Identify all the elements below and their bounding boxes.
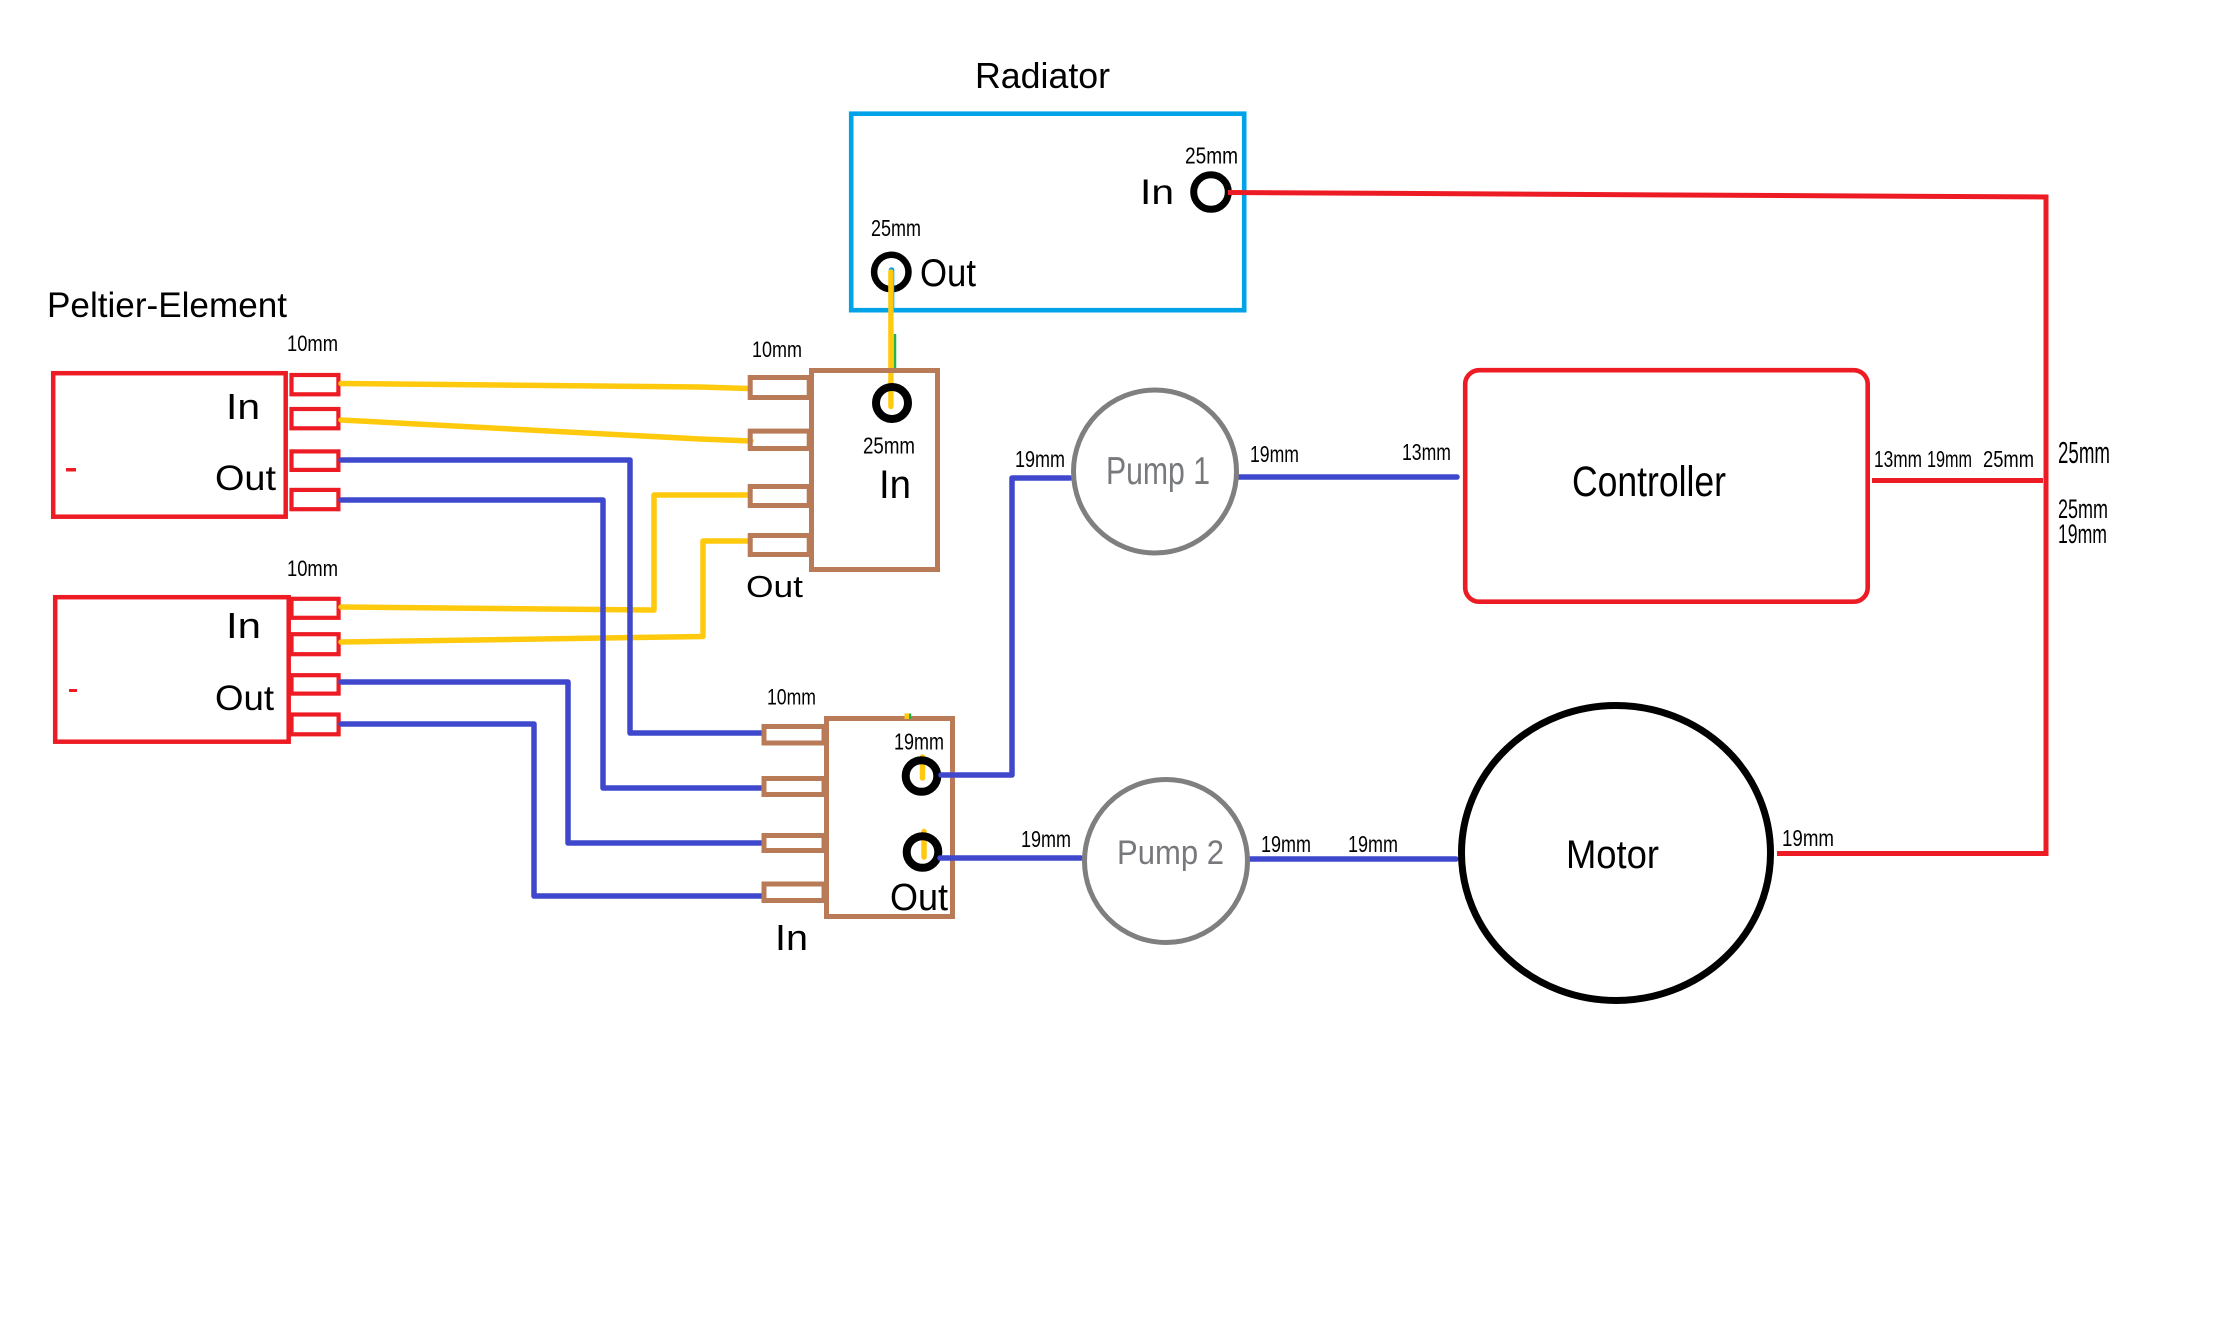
svg-text:Out: Out [215, 459, 276, 498]
svg-text:19mm: 19mm [1348, 831, 1398, 857]
svg-text:19mm: 19mm [1927, 446, 1972, 472]
wire red radiator to main line to motor [1228, 193, 2046, 854]
svg-text:Peltier-Element: Peltier-Element [47, 286, 287, 325]
pump 2 circle [1085, 780, 1248, 943]
svg-text:Pump 1: Pump 1 [1106, 450, 1210, 493]
svg-text:19mm: 19mm [1015, 446, 1065, 472]
svg-text:19mm: 19mm [1021, 826, 1071, 852]
water block 1 (brown) [750, 371, 937, 570]
svg-text:Out: Out [215, 679, 274, 718]
controller box [1465, 370, 1868, 602]
pump 1 circle [1074, 390, 1237, 553]
svg-text:10mm: 10mm [287, 331, 338, 356]
svg-text:19mm: 19mm [1250, 441, 1299, 467]
svg-text:25mm: 25mm [871, 215, 921, 241]
svg-text:13mm: 13mm [1402, 439, 1451, 465]
svg-text:In: In [226, 605, 261, 646]
radiator In port circle [1194, 175, 1229, 210]
svg-text:25mm: 25mm [1983, 446, 2034, 472]
wire yellow radiator out to block1 inlet [888, 272, 893, 407]
block2 top edge yellow tick [905, 714, 910, 720]
svg-text:Controller: Controller [1572, 458, 1726, 506]
svg-text:25mm: 25mm [2058, 435, 2110, 470]
svg-text:Radiator: Radiator [975, 55, 1110, 96]
peltier 1 red dash artifact [66, 468, 76, 472]
svg-text:25mm: 25mm [863, 433, 915, 459]
svg-text:19mm: 19mm [1261, 831, 1311, 857]
wire blue peltier1 pin3 to block2 pin1 [341, 460, 762, 733]
svg-text:13mm: 13mm [1874, 446, 1922, 472]
wire blue block2 outlet2 to pump2 [940, 855, 1081, 861]
wire yellow peltier2 pin2 to block1 pin4 [341, 541, 750, 642]
svg-text:In: In [226, 386, 260, 427]
svg-text:10mm: 10mm [752, 337, 802, 362]
svg-text:In: In [775, 917, 808, 958]
radiator Out port circle [874, 255, 908, 289]
wire green artifact radiator out [894, 334, 897, 372]
svg-text:19mm: 19mm [2058, 519, 2107, 549]
wire red controller to main line [1872, 478, 2043, 483]
svg-text:Out: Out [920, 252, 976, 295]
block1 inlet circle [876, 387, 908, 419]
radiator box [851, 114, 1244, 311]
water block 2 (brown) [764, 719, 953, 917]
block2 outlet1 circle [906, 760, 938, 792]
peltier 2 red dash artifact [69, 689, 77, 692]
wire blue peltier2 pin3 to block2 pin3 [341, 682, 762, 843]
svg-text:Out: Out [746, 569, 803, 604]
wire blue peltier2 pin4 to block2 pin4 [341, 724, 763, 896]
wire yellow peltier2 pin1 to block1 pin3 [341, 495, 748, 610]
block2 outlet1 yellow stub [920, 757, 926, 778]
wire yellow peltier1 pin1 to block1 pin1 [341, 384, 748, 389]
block2 top edge green tick [909, 714, 911, 720]
svg-text:Pump 2: Pump 2 [1117, 834, 1224, 872]
svg-text:10mm: 10mm [767, 685, 816, 710]
wire yellow peltier1 pin2 to block1 pin2 [341, 420, 751, 441]
peltier 1 box [53, 373, 338, 517]
wire blue peltier1 pin4 to block2 pin2 [341, 500, 762, 788]
svg-text:Out: Out [890, 877, 948, 919]
peltier 2 box [55, 597, 338, 742]
svg-text:19mm: 19mm [894, 729, 944, 755]
wire blue pump2 to motor [1249, 856, 1456, 862]
svg-text:19mm: 19mm [1782, 825, 1834, 851]
svg-text:In: In [1140, 173, 1174, 212]
svg-text:10mm: 10mm [287, 556, 338, 581]
wire blue artifact radiator out [889, 270, 895, 311]
block2 outlet2 circle [907, 836, 939, 868]
svg-text:25mm: 25mm [1185, 143, 1238, 169]
svg-text:In: In [879, 463, 911, 507]
block2 outlet2 yellow stub [921, 832, 927, 858]
wire blue pump1 to controller [1239, 474, 1457, 480]
wire blue block2 outlet1 to pump1 [941, 478, 1070, 775]
motor circle [1462, 706, 1771, 1001]
svg-text:Motor: Motor [1566, 833, 1659, 877]
